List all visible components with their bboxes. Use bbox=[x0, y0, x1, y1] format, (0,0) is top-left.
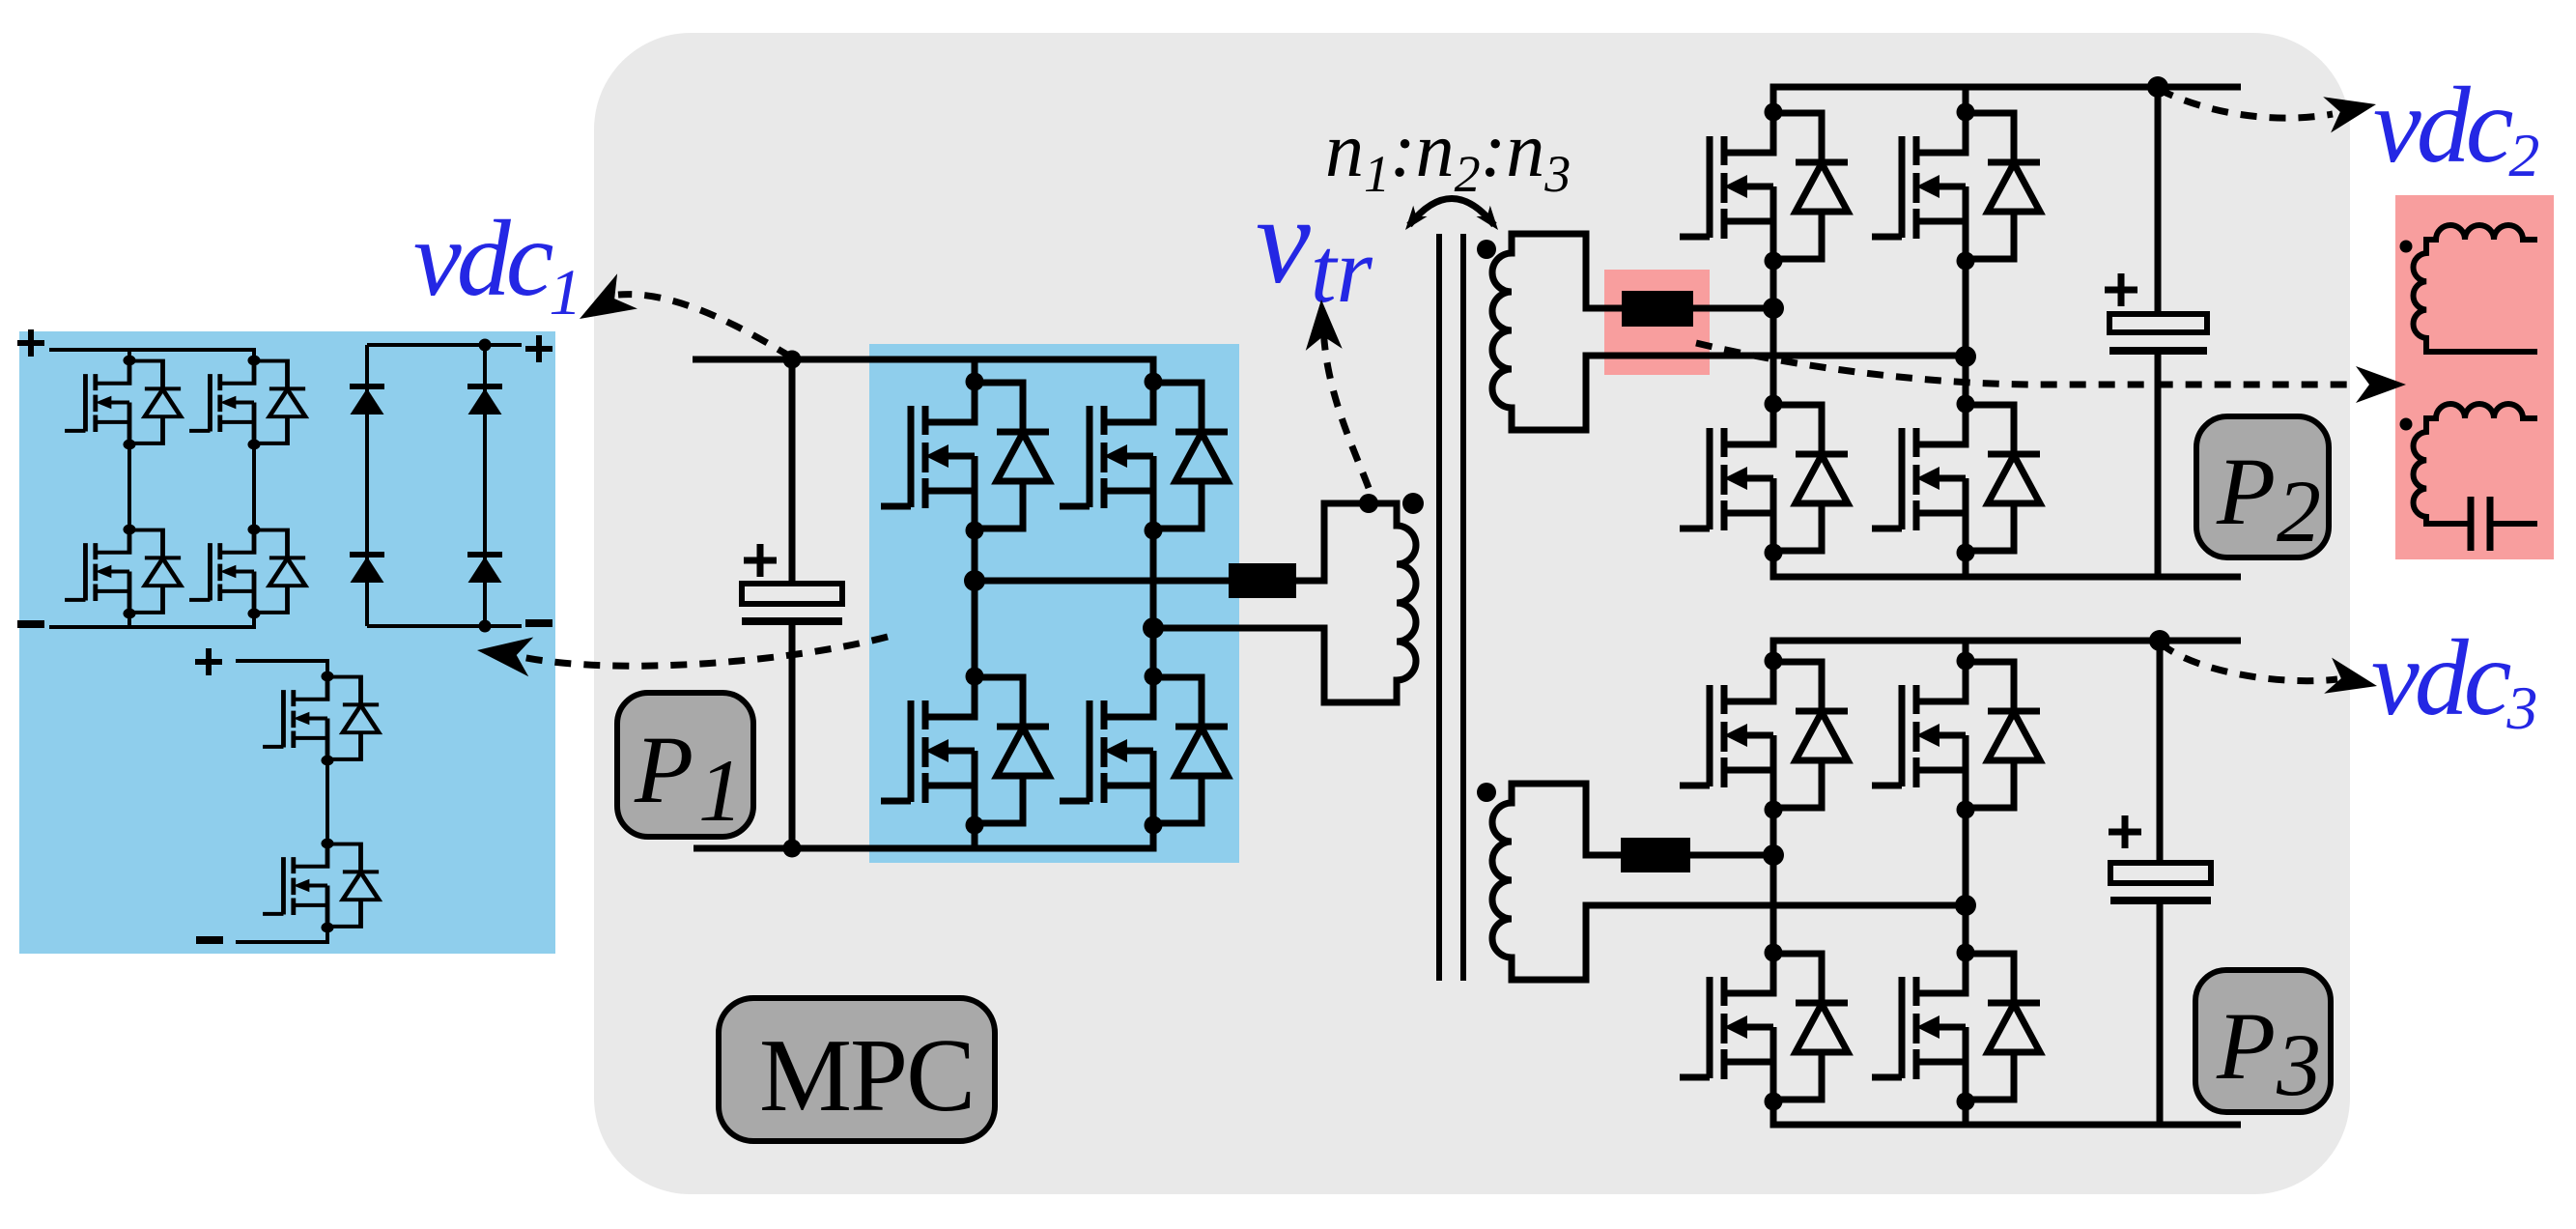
node n3 polarity dot bbox=[1477, 783, 1496, 802]
right pink resonant-tank panel bbox=[2395, 195, 2554, 559]
inductor L1 (P1 series, black box) bbox=[1229, 563, 1296, 598]
winding n1 (primary) bbox=[1153, 503, 1416, 702]
inductor L2 (P2 series, black box) bbox=[1622, 291, 1693, 327]
node P2 leg A mid bbox=[1763, 298, 1784, 319]
red highlight around P2 series inductor bbox=[1604, 270, 1710, 375]
minus DB bbox=[525, 619, 552, 627]
node P2 dc+ bbox=[2147, 76, 2168, 98]
svg-text:MPC: MPC bbox=[759, 1018, 974, 1133]
wire P2 cap branch bbox=[2155, 87, 2162, 577]
node n1 measurement dot bbox=[1359, 494, 1378, 513]
transistor Q8 (P2 bottom-right) bbox=[1872, 395, 2040, 562]
plus DB bbox=[525, 335, 552, 362]
svg-text:2: 2 bbox=[2277, 462, 2321, 560]
node P3 leg A mid bbox=[1763, 844, 1784, 866]
wire P2 leg B mid bbox=[1963, 258, 1969, 404]
transistor Q2 (P1 top-right) bbox=[1060, 373, 1228, 540]
wire Cr out bbox=[2490, 521, 2537, 527]
wire P1 left-leg mid bbox=[972, 529, 978, 676]
wire HB bottom bbox=[236, 928, 327, 942]
wire P3 leg B bottom stub bbox=[1963, 1099, 1969, 1125]
transistor QF2 bbox=[189, 356, 305, 450]
node DB dc- bbox=[479, 620, 492, 633]
capacitor C2 (P2 dc link) bbox=[2105, 273, 2207, 351]
wire P1 ac output A bbox=[975, 578, 1229, 585]
wire DB dc- rail bbox=[367, 624, 522, 628]
winding n2 (secondary upper) bbox=[1492, 234, 1966, 430]
plus HB bbox=[195, 648, 222, 675]
example diode bridge bbox=[350, 335, 552, 633]
node P1 dc- bbox=[783, 840, 802, 858]
wire FB left-leg mid bbox=[127, 444, 131, 529]
wire P1 dc- rail bbox=[694, 823, 1153, 848]
transistor QF4 bbox=[189, 525, 305, 619]
wire P2 dc- rail bbox=[1773, 553, 2241, 577]
minus HB bbox=[196, 936, 223, 944]
wire HB top bbox=[236, 661, 327, 676]
wire FB right-leg mid bbox=[252, 444, 256, 529]
arrow dashed vtr bbox=[1303, 299, 1369, 488]
transistor Q5 (P2 top-left) bbox=[1680, 103, 1848, 271]
svg-text:P: P bbox=[2216, 438, 2276, 545]
wire P3 dc+ rail bbox=[1773, 641, 2241, 661]
left blue example panel bbox=[19, 331, 555, 954]
diode D1 bbox=[350, 386, 384, 414]
wire DB right leg bbox=[483, 345, 487, 626]
node P1 leg A mid bbox=[964, 570, 985, 591]
inductor L3 (P3 series, black box) bbox=[1621, 838, 1690, 872]
wire P1 cap branch bottom bbox=[789, 621, 796, 848]
transistor QH1 bbox=[263, 672, 379, 766]
wire DB dc+ rail bbox=[367, 343, 522, 347]
node n2 polarity dot bbox=[1477, 240, 1496, 259]
wire FB dc- rail bbox=[49, 615, 254, 627]
svg-text:n1:n2:n3: n1:n2:n3 bbox=[1325, 108, 1571, 203]
wire P3 leg A mid bbox=[1770, 807, 1777, 953]
transistor QF1 bbox=[65, 356, 181, 450]
wire P2 leg B drain stub bbox=[1963, 87, 1969, 112]
transistor QF3 bbox=[65, 525, 181, 619]
arrow dashed tank link bbox=[1696, 343, 2406, 403]
plus FB bbox=[17, 329, 44, 357]
arrow dashed vdc3 bbox=[2160, 643, 2381, 704]
inductor Lr1 (top L-coil) bbox=[2414, 225, 2537, 352]
wire FB dc+ rail bbox=[49, 350, 254, 360]
node P3 dc+ bbox=[2149, 630, 2170, 651]
diode D2 bbox=[467, 386, 502, 414]
example half bridge bbox=[195, 648, 379, 942]
wire P2 leg A mid bbox=[1770, 258, 1777, 404]
svg-text:1: 1 bbox=[698, 741, 743, 840]
inductor Lr2 (bottom L-coil) bbox=[2414, 404, 2537, 524]
wire P2 dc+ rail bbox=[1773, 87, 2241, 112]
wire DB left leg bbox=[365, 345, 369, 626]
node DB dc+ bbox=[479, 339, 492, 352]
label MPC bbox=[719, 998, 995, 1141]
arrow turns-ratio arc bbox=[1399, 199, 1505, 236]
transistor QH2 bbox=[263, 839, 379, 933]
MPC grey rounded panel bbox=[594, 33, 2350, 1194]
node Lr2 polarity dot bbox=[2400, 418, 2413, 431]
wire P3 leg B drain stub bbox=[1963, 641, 1969, 661]
wire P1 dc+ rail bbox=[693, 359, 1153, 382]
arrow dashed port1 example bbox=[474, 631, 888, 677]
wire FB left-leg bottom stub bbox=[127, 615, 131, 627]
transistor Q9 (P3 top-left) bbox=[1680, 652, 1848, 819]
node P3 leg B mid bbox=[1955, 895, 1976, 916]
capacitor Cr plates bbox=[2471, 497, 2490, 551]
arrow dashed vdc2 bbox=[2158, 86, 2380, 132]
node n1 polarity dot bbox=[1402, 493, 1424, 514]
wire P3 cap branch bbox=[2157, 641, 2164, 1125]
transistor Q4 (P1 bottom-right) bbox=[1060, 668, 1228, 835]
wire L2 to P2 leg A bbox=[1693, 305, 1773, 312]
capacitor C1 (P1 dc link) bbox=[742, 544, 842, 621]
transistor Q3 (P1 bottom-left) bbox=[881, 668, 1049, 835]
arrow dashed vdc1 bbox=[570, 273, 792, 357]
transistor Q12 (P3 bottom-right) bbox=[1872, 944, 2040, 1111]
transistor Q11 (P3 bottom-left) bbox=[1680, 944, 1848, 1111]
label P3 bbox=[2195, 970, 2331, 1114]
svg-text:P: P bbox=[634, 716, 694, 823]
wire P3 leg B mid bbox=[1963, 807, 1969, 953]
diode D4 bbox=[467, 555, 502, 583]
wire FB left-leg drain stub bbox=[127, 350, 131, 360]
wire P1 ac output B bbox=[1153, 625, 1324, 632]
wire P3 dc- rail bbox=[1773, 1099, 2241, 1125]
transistor Q10 (P3 top-right) bbox=[1872, 652, 2040, 819]
transistor Q7 (P2 bottom-left) bbox=[1680, 395, 1848, 562]
wire P1 cap branch top bbox=[789, 359, 796, 584]
svg-text:3: 3 bbox=[2276, 1015, 2321, 1114]
wire HB mid bbox=[326, 759, 329, 843]
winding n3 (secondary lower) bbox=[1492, 784, 1966, 980]
wire P1 right-leg mid bbox=[1150, 529, 1157, 676]
wire P1 left-leg drain stub bbox=[972, 359, 978, 382]
svg-text:P: P bbox=[2216, 992, 2276, 1100]
minus FB bbox=[17, 620, 44, 628]
node P1 leg B mid bbox=[1143, 617, 1164, 639]
node P2 leg B mid bbox=[1955, 346, 1976, 367]
P1 bridge blue highlight bbox=[869, 344, 1239, 863]
label P1 bbox=[617, 693, 753, 840]
transistor Q6 (P2 top-right) bbox=[1872, 103, 2040, 271]
node Lr1 polarity dot bbox=[2400, 241, 2413, 253]
transistor Q1 (P1 top-left) bbox=[881, 373, 1049, 540]
node P1 dc+ bbox=[783, 351, 802, 369]
diode D3 bbox=[350, 555, 384, 583]
example full bridge bbox=[17, 329, 305, 627]
label P2 bbox=[2196, 416, 2329, 560]
wire P2 leg B bottom stub bbox=[1963, 553, 1969, 577]
wire P1 left-leg bottom stub bbox=[972, 823, 978, 848]
capacitor C3 (P3 dc link) bbox=[2109, 815, 2211, 900]
wire L3 to P3 leg A bbox=[1690, 852, 1773, 859]
transformer core bbox=[1439, 234, 1463, 981]
